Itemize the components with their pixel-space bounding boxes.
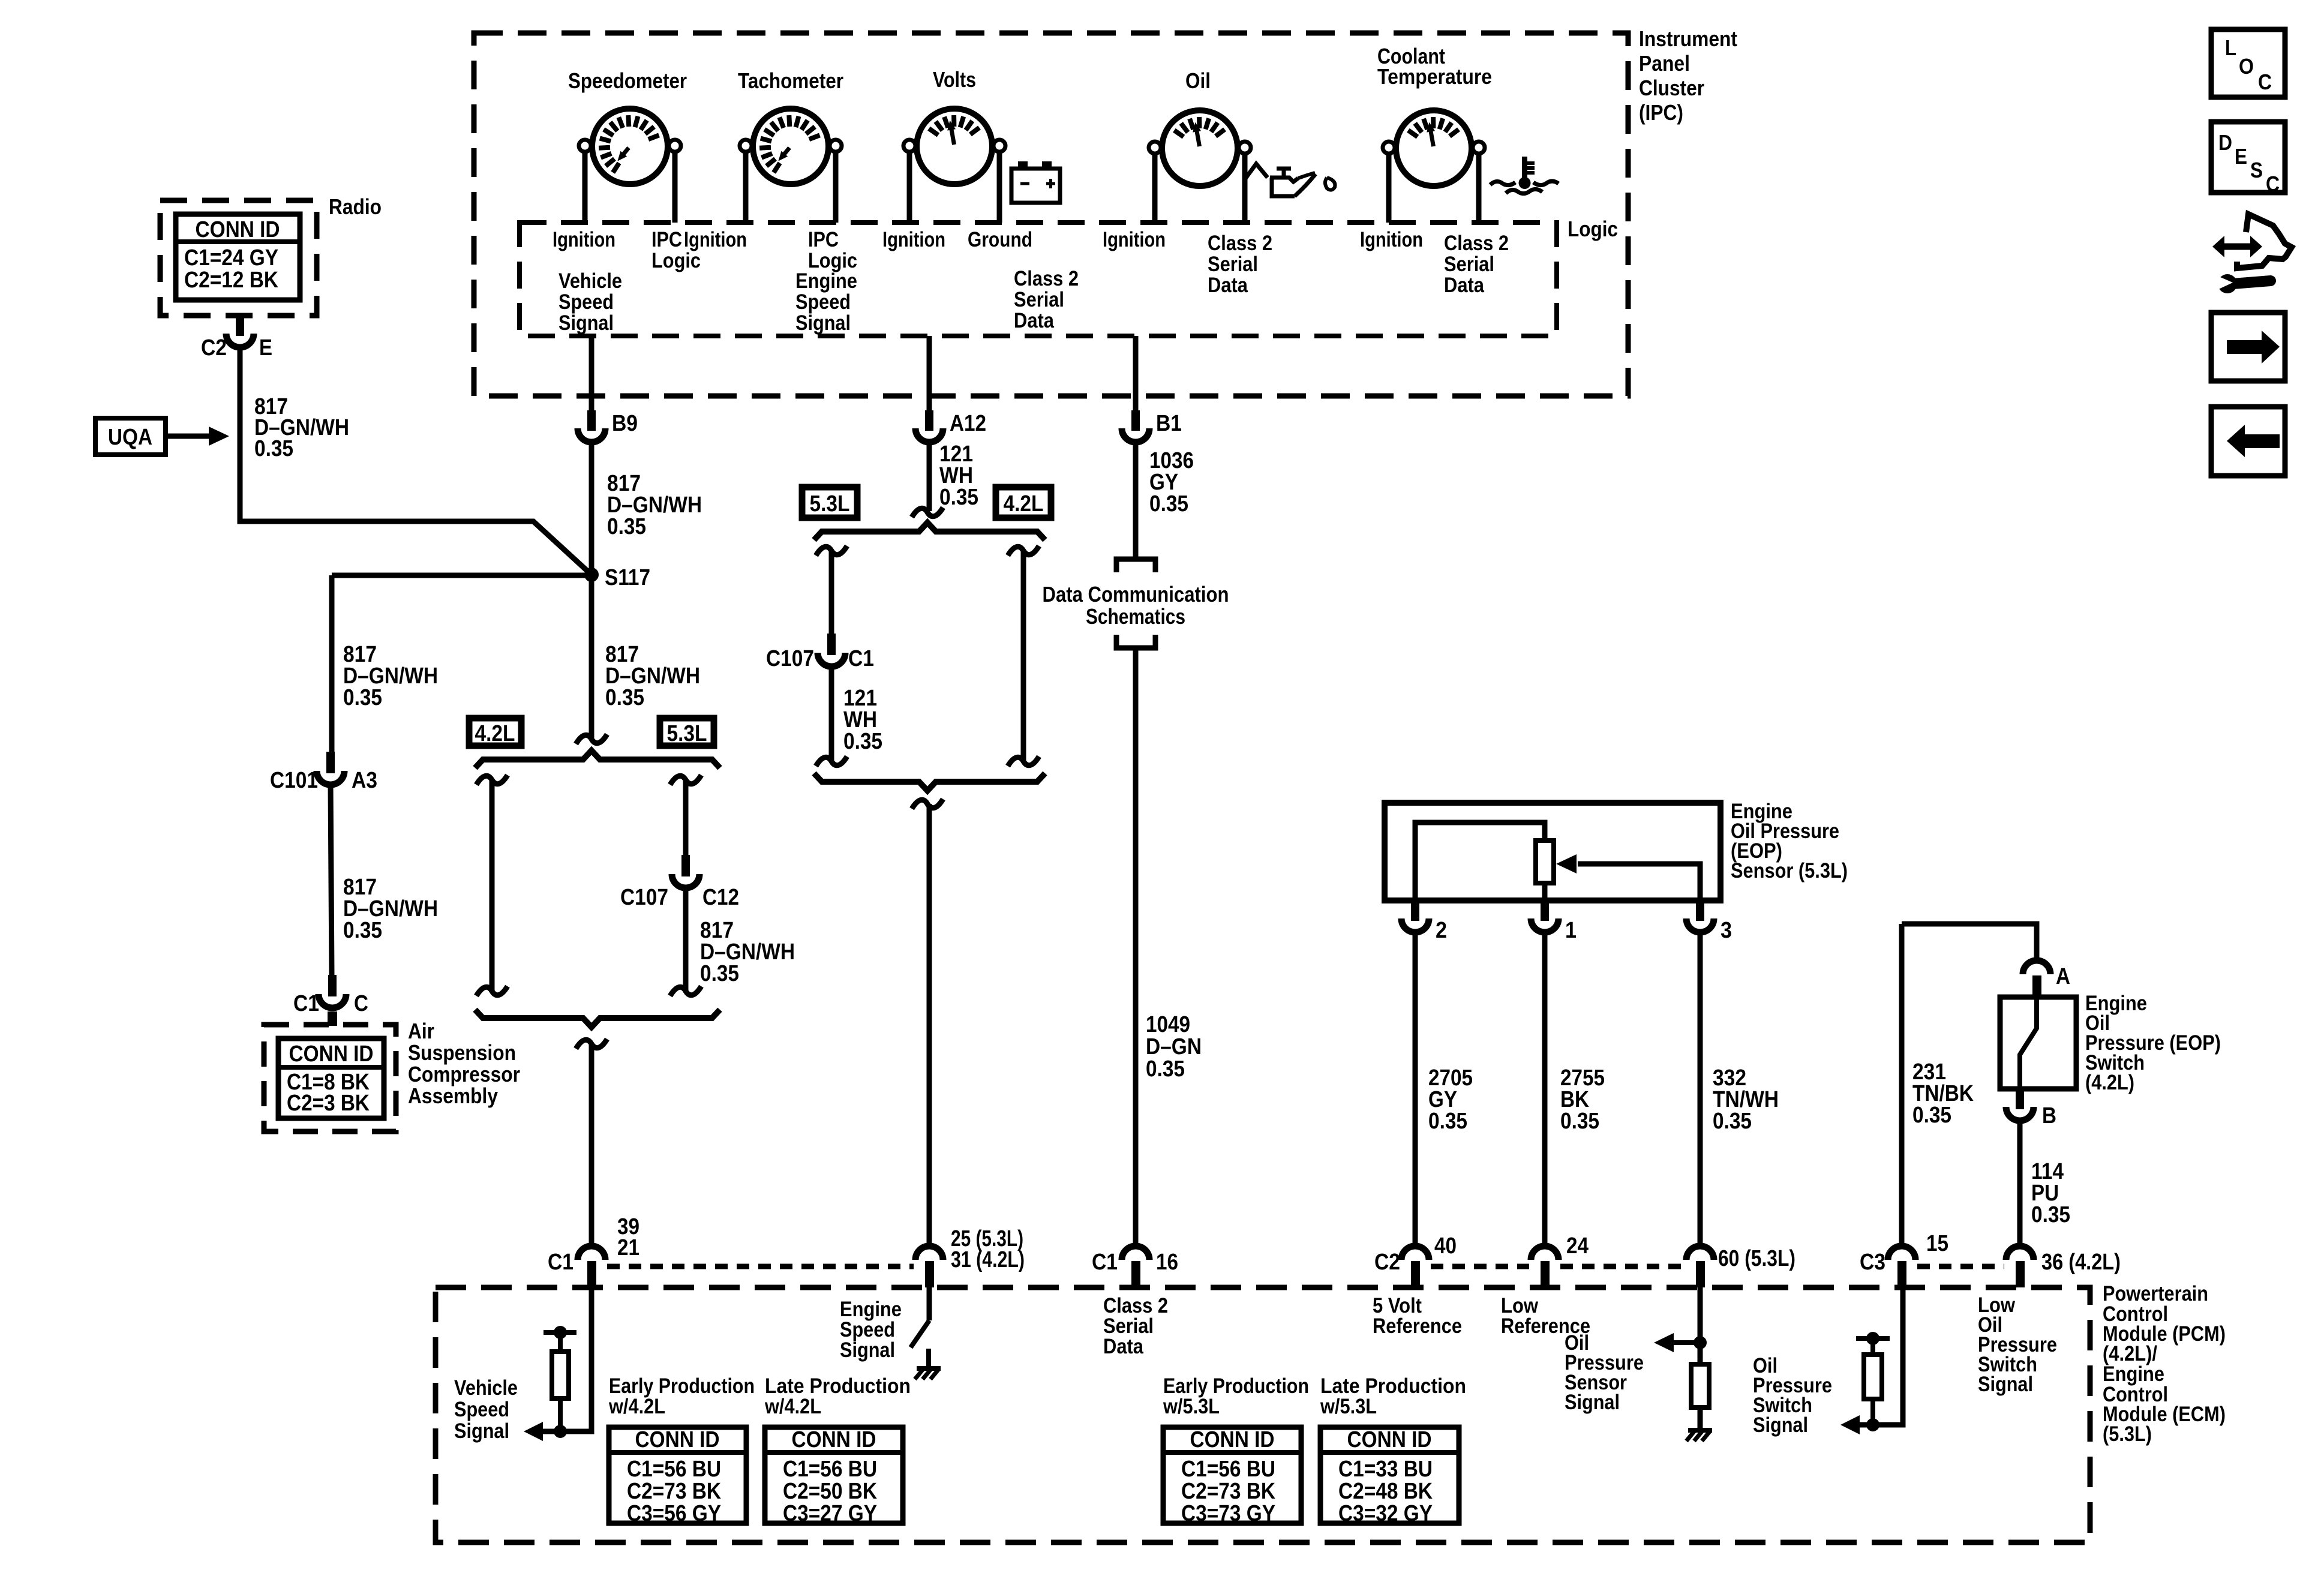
svg-text:Data: Data xyxy=(1014,309,1054,332)
svg-text:C: C xyxy=(354,991,368,1016)
svg-text:C1: C1 xyxy=(1092,1250,1118,1275)
svg-text:0.35: 0.35 xyxy=(607,514,646,539)
svg-text:Oil: Oil xyxy=(1185,68,1211,93)
svg-text:A12: A12 xyxy=(950,411,986,436)
svg-text:C: C xyxy=(2258,70,2272,94)
svg-text:B1: B1 xyxy=(1156,411,1182,436)
svg-text:CONN ID: CONN ID xyxy=(1190,1427,1275,1452)
svg-text:0.35: 0.35 xyxy=(254,436,293,461)
svg-text:w/4.2L: w/4.2L xyxy=(608,1395,665,1418)
svg-text:D: D xyxy=(2218,130,2232,155)
svg-text:Class 2: Class 2 xyxy=(1014,267,1079,290)
svg-text:0.35: 0.35 xyxy=(1713,1109,1752,1134)
svg-text:Class 2: Class 2 xyxy=(1444,232,1509,255)
svg-text:B9: B9 xyxy=(612,411,638,436)
svg-text:Instrument: Instrument xyxy=(1639,26,1737,51)
svg-text:4.2L: 4.2L xyxy=(475,721,515,746)
svg-text:1049: 1049 xyxy=(1146,1012,1190,1037)
svg-text:36 (4.2L): 36 (4.2L) xyxy=(2041,1250,2121,1275)
svg-text:0.35: 0.35 xyxy=(939,485,978,510)
svg-text:Speed: Speed xyxy=(454,1398,509,1421)
svg-text:O: O xyxy=(2239,54,2254,79)
svg-text:0.35: 0.35 xyxy=(2031,1202,2070,1227)
svg-text:Logic: Logic xyxy=(1568,217,1618,241)
svg-text:Ignition: Ignition xyxy=(553,228,615,251)
svg-text:Signal: Signal xyxy=(1753,1413,1808,1437)
svg-text:0.35: 0.35 xyxy=(1560,1109,1599,1134)
svg-text:0.35: 0.35 xyxy=(605,685,644,710)
svg-text:CONN ID: CONN ID xyxy=(635,1427,720,1452)
svg-text:w/4.2L: w/4.2L xyxy=(764,1395,821,1418)
svg-text:Signal: Signal xyxy=(559,311,614,335)
svg-text:Ignition: Ignition xyxy=(1360,228,1423,251)
svg-text:C1=24 GY: C1=24 GY xyxy=(184,245,278,271)
svg-text:16: 16 xyxy=(1156,1250,1178,1275)
svg-text:w/5.3L: w/5.3L xyxy=(1320,1395,1377,1418)
svg-text:C2=73 BK: C2=73 BK xyxy=(1181,1479,1275,1504)
svg-text:Vehicle: Vehicle xyxy=(454,1376,518,1400)
svg-text:Data Communication: Data Communication xyxy=(1043,582,1229,607)
svg-text:Signal: Signal xyxy=(1565,1391,1620,1414)
svg-text:60 (5.3L): 60 (5.3L) xyxy=(1718,1246,1795,1271)
svg-text:Radio: Radio xyxy=(329,194,382,219)
svg-text:C3=73 GY: C3=73 GY xyxy=(1181,1501,1275,1526)
svg-text:C3=27 GY: C3=27 GY xyxy=(783,1501,877,1526)
svg-text:Volts: Volts xyxy=(933,67,976,92)
svg-text:IPC: IPC xyxy=(808,228,839,251)
svg-text:(5.3L): (5.3L) xyxy=(2103,1422,2152,1446)
svg-text:IPC: IPC xyxy=(651,228,682,251)
svg-text:C1: C1 xyxy=(548,1250,574,1275)
svg-text:C3=32 GY: C3=32 GY xyxy=(1338,1501,1433,1526)
svg-text:A3: A3 xyxy=(352,768,377,793)
svg-text:CONN ID: CONN ID xyxy=(196,217,280,242)
svg-text:C1=56 BU: C1=56 BU xyxy=(627,1457,721,1482)
svg-text:0.35: 0.35 xyxy=(1912,1103,1951,1128)
svg-text:Ignition: Ignition xyxy=(882,228,945,251)
svg-text:Data: Data xyxy=(1444,274,1484,297)
svg-text:0.35: 0.35 xyxy=(1428,1109,1467,1134)
svg-text:C2=50 BK: C2=50 BK xyxy=(783,1479,877,1504)
svg-text:Reference: Reference xyxy=(1373,1314,1462,1338)
svg-text:Vehicle: Vehicle xyxy=(559,269,622,293)
svg-text:C1=56 BU: C1=56 BU xyxy=(783,1457,877,1482)
svg-text:31 (4.2L): 31 (4.2L) xyxy=(951,1247,1025,1272)
svg-text:C107: C107 xyxy=(766,646,814,671)
svg-text:2: 2 xyxy=(1436,918,1447,943)
svg-text:CONN ID: CONN ID xyxy=(792,1427,876,1452)
svg-text:C12: C12 xyxy=(702,885,739,910)
svg-text:0.35: 0.35 xyxy=(700,961,739,986)
svg-text:C1: C1 xyxy=(848,646,874,671)
svg-text:Data: Data xyxy=(1208,274,1248,297)
svg-text:Signal: Signal xyxy=(454,1419,509,1443)
svg-text:C: C xyxy=(2266,172,2280,196)
svg-text:Ground: Ground xyxy=(968,228,1032,251)
svg-text:Serial: Serial xyxy=(1208,253,1258,276)
svg-text:Sensor (5.3L): Sensor (5.3L) xyxy=(1731,859,1848,882)
svg-text:0.35: 0.35 xyxy=(343,918,382,943)
svg-text:(4.2L): (4.2L) xyxy=(2085,1071,2134,1094)
svg-text:S117: S117 xyxy=(605,565,650,590)
svg-text:UQA: UQA xyxy=(108,425,152,450)
svg-text:Signal: Signal xyxy=(840,1338,895,1362)
svg-text:Engine: Engine xyxy=(795,269,857,293)
svg-text:E: E xyxy=(2235,144,2247,169)
svg-text:3: 3 xyxy=(1721,918,1732,943)
svg-text:C107: C107 xyxy=(620,885,668,910)
svg-text:Data: Data xyxy=(1103,1335,1143,1358)
svg-text:C2=12 BK: C2=12 BK xyxy=(184,268,278,293)
svg-text:Panel: Panel xyxy=(1639,51,1690,76)
svg-text:1: 1 xyxy=(1565,918,1577,943)
svg-text:Speedometer: Speedometer xyxy=(568,68,687,93)
svg-text:Ignition: Ignition xyxy=(684,228,747,251)
svg-text:Logic: Logic xyxy=(651,249,701,272)
svg-text:5.3L: 5.3L xyxy=(667,721,707,746)
svg-text:0.35: 0.35 xyxy=(343,685,382,710)
svg-text:4.2L: 4.2L xyxy=(1004,491,1044,517)
svg-text:Assembly: Assembly xyxy=(408,1083,498,1108)
svg-text:S: S xyxy=(2250,158,2263,182)
svg-text:w/5.3L: w/5.3L xyxy=(1163,1395,1220,1418)
svg-text:C1: C1 xyxy=(293,991,319,1016)
svg-text:C2=3 BK: C2=3 BK xyxy=(287,1091,370,1116)
svg-text:40: 40 xyxy=(1434,1233,1457,1259)
svg-text:C2: C2 xyxy=(1374,1250,1400,1275)
svg-text:A: A xyxy=(2056,964,2070,989)
svg-text:15: 15 xyxy=(1926,1231,1948,1256)
svg-text:C1=56 BU: C1=56 BU xyxy=(1181,1457,1275,1482)
svg-text:Cluster: Cluster xyxy=(1639,76,1704,100)
svg-text:24: 24 xyxy=(1566,1233,1589,1259)
svg-text:E: E xyxy=(259,335,272,361)
svg-text:Ignition: Ignition xyxy=(1103,228,1166,251)
svg-text:Compressor: Compressor xyxy=(408,1062,520,1086)
svg-text:D–GN: D–GN xyxy=(1146,1034,1202,1059)
svg-text:C101: C101 xyxy=(270,768,318,793)
svg-text:L: L xyxy=(2225,35,2236,60)
svg-text:Temperature: Temperature xyxy=(1377,64,1492,89)
svg-text:Serial: Serial xyxy=(1014,288,1064,311)
svg-text:Schematics: Schematics xyxy=(1086,604,1185,629)
svg-text:5.3L: 5.3L xyxy=(810,491,850,517)
svg-text:C3=56 GY: C3=56 GY xyxy=(627,1501,721,1526)
svg-text:Tachometer: Tachometer xyxy=(738,68,843,93)
svg-text:21: 21 xyxy=(617,1235,639,1260)
svg-text:C1=33 BU: C1=33 BU xyxy=(1338,1457,1433,1482)
svg-text:C3: C3 xyxy=(1860,1250,1885,1275)
svg-text:C2=48 BK: C2=48 BK xyxy=(1338,1479,1433,1504)
svg-text:0.35: 0.35 xyxy=(843,729,882,754)
svg-text:CONN ID: CONN ID xyxy=(289,1041,374,1067)
svg-text:Signal: Signal xyxy=(795,311,851,335)
svg-text:Serial: Serial xyxy=(1444,253,1494,276)
svg-text:Signal: Signal xyxy=(1978,1373,2033,1396)
svg-text:0.35: 0.35 xyxy=(1146,1056,1185,1082)
svg-text:Suspension: Suspension xyxy=(408,1040,516,1065)
svg-text:C2: C2 xyxy=(201,335,227,361)
svg-text:Air: Air xyxy=(408,1019,434,1043)
svg-text:Speed: Speed xyxy=(559,290,614,314)
svg-text:0.35: 0.35 xyxy=(1149,491,1188,517)
svg-text:(IPC): (IPC) xyxy=(1639,100,1683,125)
svg-text:C2=73 BK: C2=73 BK xyxy=(627,1479,721,1504)
svg-text:Class 2: Class 2 xyxy=(1208,232,1272,255)
svg-text:Speed: Speed xyxy=(795,290,851,314)
svg-text:B: B xyxy=(2042,1103,2056,1128)
svg-text:CONN ID: CONN ID xyxy=(1347,1427,1432,1452)
